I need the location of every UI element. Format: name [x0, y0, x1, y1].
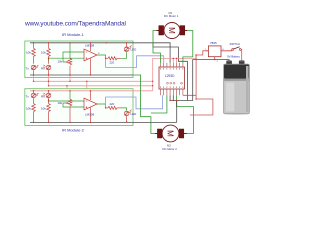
- wire: pot wiper to op-amp inverting input (green): [63, 52, 84, 62]
- svg-text:220: 220: [110, 61, 115, 65]
- label IR Module-2: [62, 128, 85, 133]
- wire: op-amp output (green): [97, 55, 106, 58]
- junction dots: [33, 42, 216, 123]
- label SWITCH: [230, 42, 240, 46]
- wire: R3 to LED D3 (green): [121, 52, 127, 58]
- wire: module2 bottom rail (ground, black): [30, 121, 177, 123]
- resistor R5 10k: [47, 104, 51, 123]
- svg-text:10k: 10k: [41, 107, 46, 111]
- potentiometer RV2 10k: [66, 99, 72, 122]
- LED Tx (module1 IR emitter D1): [31, 65, 38, 75]
- label LM358 (U1:B): [85, 113, 95, 117]
- LED D6 output indicator (module2): [124, 110, 131, 123]
- pin label 1 (7805): [205, 49, 207, 51]
- svg-text:www.youtube.com/TapendraMandal: www.youtube.com/TapendraMandal: [24, 20, 127, 27]
- motor driver U2 L293D: [159, 63, 185, 96]
- potentiometer RV1 10k: [66, 58, 72, 75]
- value label 10k (R1): [26, 51, 31, 55]
- wire: +5V supply line upper (pink): [34, 80, 153, 82]
- svg-text:M: M: [166, 130, 175, 137]
- value label RV1 10k 43%: [58, 60, 63, 64]
- label DC Motor 1: [164, 14, 179, 18]
- value label 10k (R5): [41, 107, 46, 111]
- wire: R6 to LED D6 (green): [120, 108, 127, 111]
- label Rx (module1): [41, 67, 45, 71]
- value label 220 (R3): [110, 61, 115, 65]
- svg-text:10k: 10k: [26, 107, 31, 111]
- wire: op-amp output (green, module2): [97, 104, 106, 108]
- label Tx (module2): [26, 95, 30, 99]
- svg-text:LM358: LM358: [85, 44, 95, 48]
- resistor R6 220: [106, 106, 120, 109]
- wire: module1 ground to motor/chip area (green): [133, 75, 157, 134]
- value label RV2 10k: [58, 101, 63, 105]
- svg-text:DC Motor 1: DC Motor 1: [164, 14, 179, 18]
- pin number 1 (U1 output): [98, 52, 100, 55]
- motor M2: [155, 125, 187, 142]
- label DC Motor 2: [163, 147, 178, 151]
- photodiode Rx (module2 D5): [43, 91, 51, 104]
- wire: Rx node to op-amp input (green): [49, 58, 85, 60]
- wire: +5V supply line lower (pink): [49, 85, 153, 87]
- wire: supply stubs (pink): [34, 75, 87, 91]
- label Tx (module1): [26, 67, 30, 71]
- svg-text:Rx: Rx: [41, 67, 45, 71]
- wire: +5V vertical feed (pink): [153, 58, 196, 90]
- svg-text:M: M: [167, 27, 176, 34]
- IR Module-2 group box: [25, 89, 133, 126]
- label Rx (module2): [41, 95, 45, 99]
- svg-text:LED: LED: [131, 48, 138, 52]
- battery BT1 9V: [224, 60, 250, 115]
- label M2: [167, 143, 171, 147]
- resistor R3 220: [106, 57, 121, 60]
- resistor R4 10k: [32, 104, 36, 123]
- voltage regulator U3 7805: [206, 46, 226, 60]
- resistor R1 10k: [32, 43, 36, 64]
- wire: switch to battery + (red): [241, 49, 243, 61]
- wire: motor1 left to L293D OUT1 (green): [153, 31, 161, 63]
- title text www.youtube.com/TapendraMandal: [24, 20, 127, 27]
- motor M1: [156, 23, 187, 39]
- svg-text:IR Module-1: IR Module-1: [62, 32, 85, 37]
- pin label 3 (7805): [222, 49, 224, 51]
- op-amp U1:B LM358: [84, 91, 97, 123]
- svg-text:10k: 10k: [58, 60, 63, 64]
- label IR Module-1: [62, 32, 85, 37]
- svg-text:LED: LED: [131, 112, 138, 116]
- svg-text:Tx: Tx: [26, 67, 30, 71]
- op-amp U1:A LM358: [84, 43, 97, 75]
- svg-text:10k: 10k: [58, 101, 63, 105]
- wire: module1 gnd branch around chip right: [153, 43, 188, 101]
- svg-text:7805: 7805: [210, 41, 217, 45]
- svg-text:220: 220: [110, 102, 115, 106]
- wire: L293D OUT4 to motor2 right (green): [177, 95, 194, 133]
- switch SW1: [226, 47, 242, 51]
- pin label 2 (7805): [217, 61, 219, 63]
- wire: motor1 right to L293D OUT2 (green): [183, 31, 193, 63]
- wire: pot wiper to op-amp input (green, module2): [63, 103, 84, 107]
- label 9V Battery: [227, 55, 240, 59]
- wire: module1 output to L293D IN1 (blue): [106, 56, 164, 68]
- LED D3 output indicator: [124, 43, 131, 52]
- label LED (module1): [131, 48, 138, 52]
- label LED (module2): [131, 112, 138, 116]
- wire: module2 output to L293D IN4 (blue): [106, 95, 163, 109]
- svg-text:10k: 10k: [41, 51, 46, 55]
- wire: module1 bottom rail: [30, 74, 133, 76]
- wire: 9V to L293D VS (red): [183, 55, 213, 115]
- label LM358 (U1): [85, 44, 95, 48]
- resistor R2 10k: [47, 43, 51, 64]
- wire: ground stubs to L293D GND pins (black): [170, 95, 177, 122]
- svg-text:L293D: L293D: [165, 74, 175, 78]
- svg-text:LM358: LM358: [85, 113, 95, 117]
- wire: 7805 output +5V (red): [196, 51, 208, 59]
- LED Tx (module2 IR emitter D4): [31, 91, 38, 104]
- svg-text:DC Motor 2: DC Motor 2: [163, 147, 178, 151]
- label 7805 (U3): [210, 41, 217, 45]
- wire: +5V stubs to L293D VCC pins (pink): [173, 58, 176, 62]
- wire: module1 top rail (to L293D pin 4 column): [30, 43, 170, 63]
- wire: L293D OUT3 to motor2 left (green): [151, 95, 167, 113]
- svg-text:Tx: Tx: [26, 95, 30, 99]
- wire: Rx node to op-amp input (green, module2): [49, 99, 85, 101]
- wire: top rail to pot RV1 (green): [69, 43, 71, 59]
- svg-text:IR Module-2: IR Module-2: [62, 128, 85, 133]
- IR Module-1 group box: [25, 41, 133, 78]
- wire: top rail to pot RV2 (green): [69, 91, 71, 99]
- svg-text:Rx: Rx: [41, 95, 45, 99]
- label M1: [169, 11, 173, 15]
- wire: battery - ground path (black): [170, 60, 229, 101]
- svg-text:10k: 10k: [26, 51, 31, 55]
- value label 10k (R4): [26, 107, 31, 111]
- wire: module2 top rail +5V (pink): [30, 90, 153, 92]
- photodiode Rx (module1 D2): [43, 65, 51, 75]
- value label 10k (R2): [41, 51, 46, 55]
- value label 220 (R6): [110, 102, 115, 106]
- label L293D (U2): [165, 74, 175, 78]
